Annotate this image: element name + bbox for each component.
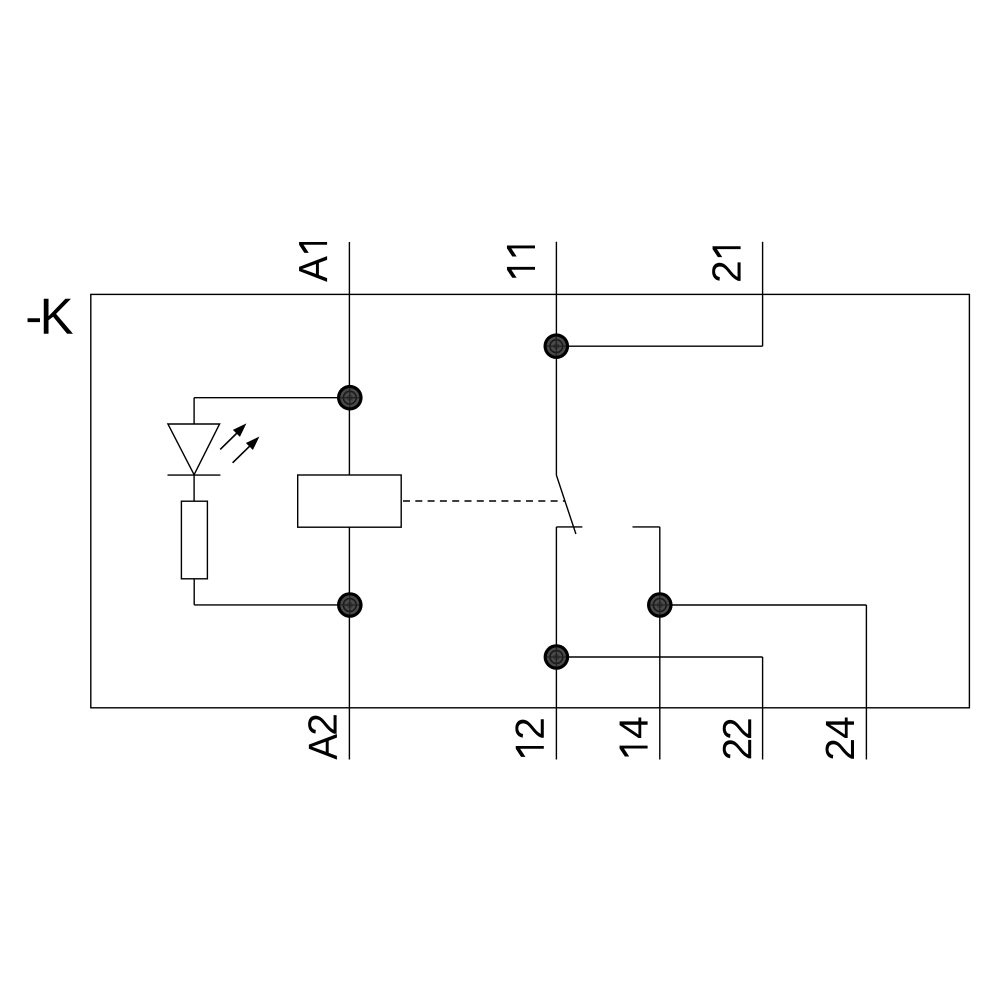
contact 14 tick [633,526,660,528]
wire 21 terminal vertical [762,242,764,346]
wire resistor bottom stub [193,579,195,605]
contact 12 tick [556,526,582,528]
LED D1 cathode stub [193,475,195,501]
LED light arrow 2 [233,437,260,463]
resistor R1 [181,501,207,579]
wire A2 terminal vertical [348,527,350,759]
wire 24 terminal vertical [865,605,867,760]
terminal dot 11 [544,333,570,359]
LED light arrow 1 [220,423,246,449]
terminal label 21 [712,246,740,281]
label -K [28,299,73,334]
relay coil K1 [298,475,402,527]
wire 12 contact vertical [555,527,557,760]
terminal dot A2 [337,592,363,618]
terminal label 22 [723,719,751,758]
LED D1 triangle [168,424,220,475]
terminal label 14 [620,717,648,756]
relay body outline box [91,294,970,707]
wire LED top horizontal [194,397,349,399]
wire 22 terminal vertical [762,657,764,760]
wire A1 terminal vertical [348,242,350,475]
terminal label 24 [826,717,854,758]
wire 12 to 22 horizontal [556,656,762,658]
wire resistor bottom to A2 horizontal [194,604,349,606]
terminal dot 14 [647,592,673,618]
coil to contact dashed link [403,500,565,502]
wire 11 terminal vertical [555,242,557,476]
terminal dot 12 [544,644,570,670]
terminal label A1 [299,242,327,282]
terminal dot A1 [337,385,363,411]
LED D1 cathode bar [168,474,221,476]
LED D1 anode stub [193,398,195,424]
terminal label 12 [515,719,543,757]
wire 14 contact vertical [659,527,661,760]
wire 11 to 21 horizontal [556,345,762,347]
terminal label A2 [308,715,337,759]
terminal label 11 [507,246,535,278]
wire 14 to 24 horizontal [660,604,867,606]
switch blade 11-12 [557,476,576,535]
